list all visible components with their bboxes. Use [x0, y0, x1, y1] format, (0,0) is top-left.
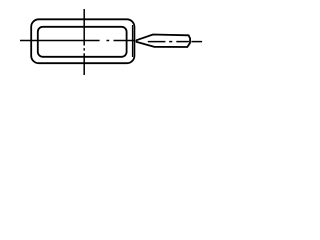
- horizontal centerline dash 2: [114, 40, 135, 42]
- side view centerline dash 1: [148, 41, 166, 43]
- vertical centerline dash 2: [83, 53, 85, 75]
- vertical centerline dot: [83, 48, 85, 50]
- vertical centerline dash 1: [83, 9, 85, 46]
- side view centerline dash 3: [191, 41, 202, 43]
- side view centerline dot: [169, 41, 172, 43]
- horizontal centerline dot: [107, 40, 110, 42]
- outer eye contour: [31, 19, 134, 63]
- horizontal centerline dash 1: [20, 40, 100, 42]
- pin side-view outline: [137, 35, 191, 48]
- eye right edge reinforcement: [132, 25, 134, 57]
- inner hole contour: [38, 27, 127, 57]
- side view centerline dash 2: [176, 41, 189, 43]
